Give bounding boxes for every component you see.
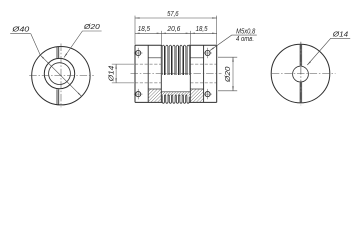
- side view: bellows inner diameter line (section): [161, 91, 190, 93]
- svg-text:Ø20: Ø20: [225, 66, 232, 83]
- dimension 57,6: extension lines: [135, 16, 217, 45]
- svg-text:4 отв.: 4 отв.: [236, 36, 254, 43]
- side view: horizontal centerline: [131, 73, 222, 75]
- left view: clamp slit bottom: [57, 89, 59, 104]
- side view: body outline (open across bellows): [135, 45, 217, 102]
- side view: bellows corrugation lines (top half): [162, 46, 189, 75]
- dimension chain: line and arrows: [135, 32, 217, 34]
- side view: bellows bottom corrugation profile: [162, 95, 189, 103]
- note M5x0,8 / 4 holes: leader: [210, 35, 257, 51]
- svg-text:Ø20: Ø20: [83, 24, 100, 31]
- right view: vertical centerline: [300, 42, 302, 106]
- side view: clamp screw hole M5: [205, 50, 210, 55]
- side view: bore hidden lines: [135, 64, 217, 83]
- svg-text:18,5: 18,5: [138, 26, 150, 33]
- svg-text:Ø14: Ø14: [332, 31, 348, 38]
- dimension Ø14 bore: line and arrows: [115, 64, 117, 83]
- left view: clamp slit top: [57, 47, 59, 58]
- dimension Ø14 right view: leader and shelf: [307, 38, 350, 65]
- side view: collar inner step lines top: [148, 57, 203, 59]
- side view: hub/collar division lines: [148, 45, 203, 102]
- svg-text:M5x0,8: M5x0,8: [236, 28, 255, 35]
- dimension Ø40: diameter line with arrows: [31, 34, 82, 97]
- svg-text:57,6: 57,6: [167, 11, 179, 18]
- side view: bellows top caps: [162, 45, 189, 46]
- right view: horizontal centerline: [272, 73, 336, 75]
- side view: clamp screw hole M5: [136, 92, 141, 97]
- dimension 57,6: line and arrows: [135, 17, 217, 19]
- dimension Ø20: extension lines: [218, 57, 237, 91]
- svg-text:Ø40: Ø40: [11, 27, 29, 34]
- left view: horizontal centerline: [29, 75, 94, 77]
- left view: vertical centerline: [60, 44, 62, 108]
- svg-text:20,6: 20,6: [166, 26, 180, 33]
- side view: clamp screw hole M5: [136, 50, 141, 55]
- left view: hub outer circle Ø40: [32, 46, 90, 104]
- left view: boss circle Ø20 (offset): [44, 58, 74, 88]
- right view: clamp slit bottom (filled): [300, 82, 303, 103]
- dimension Ø40: shelf: [10, 33, 31, 35]
- dimension Ø20: line and arrows: [232, 57, 234, 91]
- svg-text:Ø14: Ø14: [109, 66, 116, 83]
- left view: bore circle Ø14: [49, 63, 71, 85]
- side view: bellows section hatch: [153, 92, 195, 96]
- right view: bore circle Ø14: [293, 66, 309, 82]
- right view: clamp slit top (filled): [300, 45, 303, 67]
- right view: hub outer circle Ø40: [271, 44, 330, 103]
- side view: collar section hatch: [148, 88, 161, 90]
- svg-text:18,5: 18,5: [196, 26, 208, 33]
- dimension Ø14 bore: extension lines: [112, 64, 134, 83]
- side view: clamp screw hole M5: [205, 92, 210, 97]
- side view: collar section hatch: [190, 88, 203, 90]
- dimension Ø20: leader: [64, 31, 102, 58]
